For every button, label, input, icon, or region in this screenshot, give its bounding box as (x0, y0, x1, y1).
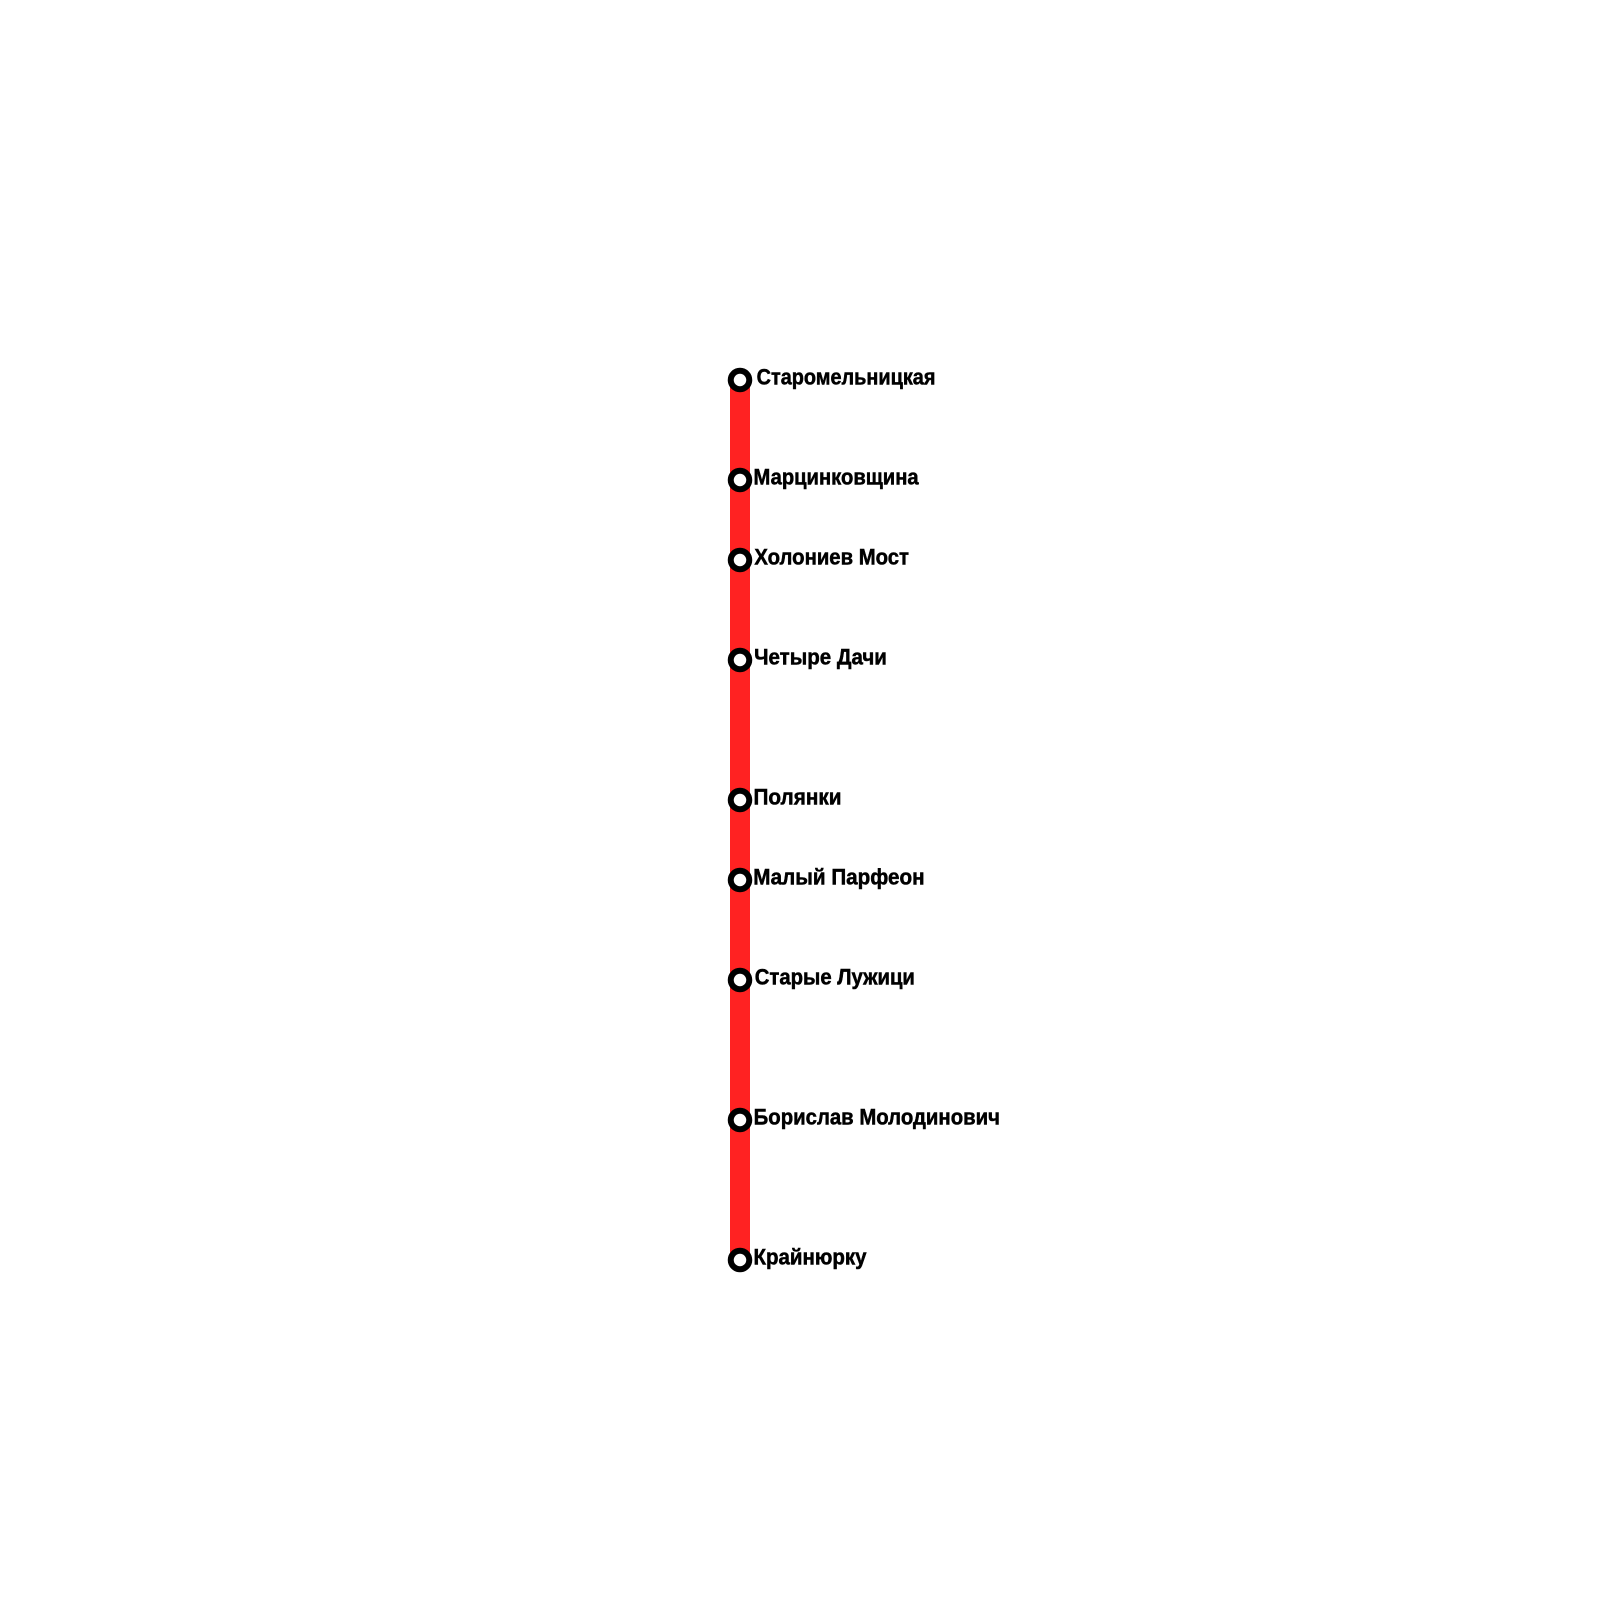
svg-text:Старые Лужици: Старые Лужици (755, 965, 915, 990)
node: station marker Четыре Дачи (731, 651, 750, 670)
svg-text:Крайнюрку: Крайнюрку (754, 1245, 868, 1270)
svg-text:Полянки: Полянки (753, 785, 841, 810)
svg-text:Марцинковщина: Марцинковщина (754, 465, 920, 490)
svg-text:Четыре Дачи: Четыре Дачи (754, 645, 887, 670)
svg-text:Борислав Молодинович: Борислав Молодинович (754, 1105, 1000, 1130)
node: station marker Малый Парфеон (731, 871, 750, 890)
node: station marker Борислав Молодинович (731, 1111, 750, 1130)
wire: red metro line (730, 380, 750, 1260)
svg-text:Малый Парфеон: Малый Парфеон (753, 865, 924, 890)
node: station marker Марцинковщина (731, 471, 750, 490)
svg-text:Холониев Мост: Холониев Мост (754, 545, 909, 570)
node: station marker Старые Лужици (731, 971, 750, 990)
node: station marker Старомельницкая (731, 371, 750, 390)
node: station marker Крайнюрку (731, 1251, 750, 1270)
node: station marker Холониев Мост (731, 551, 750, 570)
svg-text:Старомельницкая: Старомельницкая (757, 365, 936, 390)
node: station marker Полянки (731, 791, 750, 810)
